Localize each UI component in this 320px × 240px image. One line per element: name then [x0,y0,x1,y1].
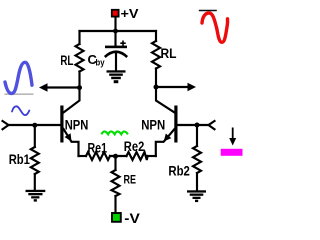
svg-text:-V: -V [124,211,140,226]
svg-text:Rb2: Rb2 [168,163,190,179]
svg-text:NPN: NPN [141,117,165,132]
svg-text:RE: RE [124,173,137,187]
svg-text:+V: +V [121,7,140,21]
svg-text:RL: RL [60,53,73,68]
svg-text:RL: RL [161,46,177,61]
svg-text:Re2: Re2 [124,139,145,154]
svg-text:Rb1: Rb1 [9,151,30,167]
svg-text:by: by [96,58,105,68]
svg-text:NPN: NPN [65,117,89,132]
svg-text:Re1: Re1 [88,141,108,156]
